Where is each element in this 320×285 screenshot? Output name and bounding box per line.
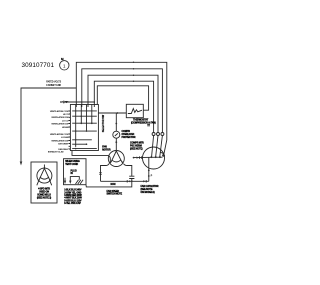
svg-text:(SEE NOTE): (SEE NOTE) <box>130 148 143 151</box>
switch label stubs <box>69 111 71 149</box>
bottom wire B <box>86 182 132 187</box>
wire L3 <box>88 75 158 132</box>
svg-text:P: P <box>151 174 153 177</box>
svg-text:309107701: 309107701 <box>22 62 55 69</box>
ticks on thermostat drop <box>147 124 150 125</box>
supply wire <box>64 101 95 103</box>
svg-text:VENTILATION CCW: VENTILATION CCW <box>50 133 70 136</box>
fan right leg wire with capacitor <box>124 164 132 176</box>
svg-text:RATED VOLTS: RATED VOLTS <box>46 81 61 84</box>
fan capacitor label <box>141 185 159 194</box>
svg-text:HI FAN: HI FAN <box>62 126 69 129</box>
junction dots on supply wire <box>76 101 78 103</box>
fan speed wire from switch <box>72 151 110 163</box>
inline connector dots on loops <box>133 62 135 64</box>
wire L4 <box>94 81 153 132</box>
revision symbol circle 1 <box>60 61 69 70</box>
bottom wire A <box>101 180 149 182</box>
svg-text:6-YEL PNK CAP: 6-YEL PNK CAP <box>64 202 81 205</box>
switch position labels <box>48 101 69 154</box>
power cord quick-connect <box>60 101 62 103</box>
fan to compressor wire <box>134 156 163 158</box>
svg-text:PROTECTOR: PROTECTOR <box>122 136 136 139</box>
svg-text:HI CO: HI CO <box>63 114 69 116</box>
wire L1 outermost loop <box>76 62 167 155</box>
svg-text:LO CO: LO CO <box>62 120 69 122</box>
svg-text:SWITCH NOTE: SWITCH NOTE <box>107 193 123 196</box>
svg-text:TEST CORD: TEST CORD <box>65 163 78 166</box>
selector switch block <box>70 105 98 151</box>
test plug wires <box>70 177 79 181</box>
cabinet outline with arrow end <box>21 88 76 163</box>
thermostat TH1 <box>126 104 143 117</box>
svg-text:CABINET GND: CABINET GND <box>46 84 61 87</box>
compressor label <box>130 142 144 151</box>
thermostat wire <box>98 112 126 114</box>
quick connects on bottom wire <box>126 180 128 182</box>
svg-text:A LINE: A LINE <box>62 101 69 104</box>
svg-text:LO FAN: LO FAN <box>61 136 69 139</box>
fan left leg wire <box>101 163 110 181</box>
fan motor M1 <box>108 151 124 167</box>
wire L2 <box>82 69 163 133</box>
overload label <box>122 130 136 139</box>
svg-text:MOTOR: MOTOR <box>102 148 111 151</box>
quick connect on fan-compressor wire <box>139 156 141 158</box>
svg-text:VENTILATION CW: VENTILATION CW <box>51 122 69 125</box>
svg-text:VENTILATION CW: VENTILATION CW <box>51 116 69 119</box>
compressor COMP <box>143 147 165 169</box>
plug prong arrows <box>64 181 66 184</box>
compressor terminals S C R <box>141 156 143 159</box>
compressor C drop <box>148 157 150 181</box>
svg-text:1: 1 <box>63 63 66 68</box>
svg-text:EXHAUST CLSD: EXHAUST CLSD <box>48 151 64 154</box>
svg-text:(COMPRESSOR & FAN): (COMPRESSOR & FAN) <box>131 122 156 125</box>
wire L5 thermostat feed <box>97 86 148 110</box>
svg-text:VENTILATION CW: VENTILATION CW <box>51 139 69 142</box>
fan motor label <box>102 145 111 151</box>
test cord box <box>64 159 87 185</box>
switch internal wires <box>75 105 77 147</box>
switch junction dots <box>75 110 77 112</box>
fan capacitor C1 <box>129 176 134 178</box>
svg-text:IN: IN <box>71 172 74 175</box>
ground hatch <box>76 180 84 184</box>
alternate fan motor label <box>37 188 52 200</box>
svg-text:SELECTOR SW: SELECTOR SW <box>102 114 105 132</box>
under-fan label <box>107 183 123 196</box>
overload protector wire <box>115 113 117 131</box>
connector circles on compressor wires <box>161 133 164 136</box>
svg-text:EXH VENT: EXH VENT <box>58 143 69 145</box>
thermostat label <box>131 119 156 125</box>
svg-text:M: M <box>61 57 64 61</box>
overload protector <box>113 131 120 138</box>
alternate fan motor box <box>31 162 57 203</box>
svg-text:ON MODELS): ON MODELS) <box>141 191 155 194</box>
svg-text:FAN ONLY: FAN ONLY <box>58 148 69 151</box>
wiring notes <box>64 189 82 206</box>
svg-text:(SEE NOTE 2): (SEE NOTE 2) <box>37 197 52 200</box>
alternate fan motor M2 <box>37 168 52 183</box>
svg-text:VENTILATION CCW: VENTILATION CCW <box>50 110 70 113</box>
svg-text:RUN: RUN <box>111 183 116 186</box>
quick connect on left leg <box>99 173 101 175</box>
